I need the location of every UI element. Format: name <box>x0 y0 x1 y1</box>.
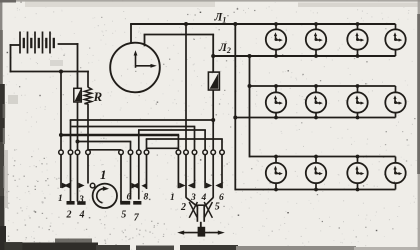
contact arrow 6 <box>131 183 137 189</box>
wire clock row1-1 top stub <box>275 24 277 29</box>
svg-text:6: 6 <box>127 193 132 203</box>
node row2-2 bottom <box>314 116 318 120</box>
contact arrow 3 <box>78 183 84 189</box>
pendulum contact arrow 6 <box>215 183 221 189</box>
wire clock row2-1 bottom stub <box>275 113 277 118</box>
node row1-1 bottom <box>274 54 278 58</box>
wire pendulum lead 6 <box>221 155 223 189</box>
node terminal 2 <box>68 150 73 155</box>
wire resistor top lead <box>87 71 89 88</box>
wire clock row1-4 bottom stub <box>395 50 397 56</box>
secondary clock row3-2 <box>306 163 326 183</box>
secondary clock row3-4 <box>385 163 405 183</box>
pendulum rod right <box>203 205 205 222</box>
svg-text:4: 4 <box>79 210 85 221</box>
node row1-2 top <box>314 22 318 26</box>
svg-text:2: 2 <box>66 210 72 221</box>
scan edge smudges <box>0 0 2 32</box>
node row2-1 bottom <box>274 116 278 120</box>
node row2-3 bottom <box>356 116 360 120</box>
pendulum spring left X <box>189 202 197 218</box>
wire pendulum lead 4 <box>204 155 206 189</box>
wire jumper terminal4 to terminal5 <box>88 149 121 151</box>
clock minute hand (up arrow) <box>135 54 137 68</box>
node row3-2 top <box>314 155 318 159</box>
node junction on battery bottom wire <box>59 70 63 74</box>
svg-text:R: R <box>93 89 103 104</box>
node terminal 13 <box>211 150 216 155</box>
svg-text:8: 8 <box>144 193 149 203</box>
wire left down <box>10 44 12 72</box>
wire battery branch down to terminal 1 <box>60 72 62 151</box>
wire pendulum lead 5 (to pivot) <box>212 155 214 198</box>
wire pendulum lead 1 <box>177 155 179 189</box>
svg-text:5: 5 <box>121 210 126 221</box>
contact arrow 2 <box>64 183 70 189</box>
wire contact lead 8 <box>146 155 148 189</box>
motor rotation arrow <box>97 189 105 203</box>
pendulum rod lower <box>200 222 202 228</box>
node row2-3 top <box>356 84 360 88</box>
wire L1 drop vertical to rows 2-3 <box>234 24 236 190</box>
wire H2b right corner down <box>204 130 206 150</box>
socket bar 5 (corner) <box>120 201 130 205</box>
wire row3 bottom bus <box>235 189 395 191</box>
wire clock row3-3 top stub <box>357 157 359 163</box>
svg-text:3: 3 <box>78 195 84 205</box>
socket bar 3 <box>77 201 85 205</box>
wire H5 right corner down <box>221 139 223 150</box>
node row3-1 top <box>274 155 278 159</box>
wire clock row2-1 top stub <box>275 86 277 92</box>
socket bar 2 <box>67 201 75 205</box>
wire clock row3-4 bottom stub <box>395 183 397 189</box>
primary clock face <box>110 43 160 93</box>
wire H5 routing <box>146 138 223 140</box>
node terminal 5 <box>119 150 124 155</box>
wire H4 corner down to terminal <box>130 142 132 151</box>
wire fuse-right down to terminal row <box>212 90 214 150</box>
wire clock row3-1 top stub <box>275 157 277 163</box>
node row3-3 bottom <box>356 188 360 192</box>
wire jumper terminal8 to terminal9 <box>147 147 179 149</box>
wire line L1 horizontal <box>130 23 395 25</box>
svg-text:2: 2 <box>180 202 186 213</box>
node terminal 10 <box>184 150 189 155</box>
wire H3 routing (thick) <box>61 134 179 137</box>
wire clock right terminal <box>144 35 146 47</box>
wire contact lead 1 <box>60 155 62 188</box>
node terminal 14 <box>220 150 225 155</box>
node terminal 9 <box>176 150 181 155</box>
pendulum contact arrow 1 <box>179 183 185 189</box>
battery GB (cell group) <box>19 32 21 54</box>
wire H2b routing <box>138 129 206 131</box>
svg-text:1: 1 <box>100 167 107 182</box>
wire row3 top bus <box>250 156 396 158</box>
contact arrow 1 <box>62 183 69 189</box>
node terminal 12 <box>203 150 208 155</box>
wire pendulum diagonal left <box>186 198 197 207</box>
wire clock row2-4 bottom stub <box>395 113 397 118</box>
wire battery right lead <box>58 43 79 45</box>
wire resistor bottom lead down to terminal <box>87 104 89 150</box>
wire contact lead 7 <box>138 155 140 200</box>
node row1-3 top <box>356 22 360 26</box>
wire clock right to fuse corner <box>144 34 215 36</box>
wire line L2 horizontal <box>213 55 395 57</box>
contact arrow 8 <box>141 183 147 189</box>
fuse F1 (left, half-filled) <box>74 88 82 102</box>
wire from L1 down to terminal row <box>185 24 187 150</box>
node terminal 1 <box>59 150 64 155</box>
wire battery right down to fuse <box>77 43 79 88</box>
node terminal 11 <box>192 150 197 155</box>
wire battery left lead <box>10 44 20 46</box>
secondary clock row3-3 <box>347 163 367 183</box>
wire row2 bottom bus <box>235 117 395 119</box>
wire H4 routing <box>78 141 132 143</box>
wire clock row2-4 top stub <box>395 86 397 92</box>
wire contact lead 5 <box>120 155 122 203</box>
pendulum rod top bar <box>197 204 205 206</box>
secondary clock row1-3 <box>347 29 367 49</box>
socket bar 7 <box>133 201 141 205</box>
secondary clock row3-1 <box>266 163 286 183</box>
wire contact lead 6 <box>130 155 132 200</box>
pendulum spring right X <box>204 202 212 218</box>
node H4 start <box>76 140 80 144</box>
wire clock row3-2 top stub <box>315 157 317 163</box>
node L1 tap for terminal wire <box>184 22 188 26</box>
node row2 bottom tap <box>233 116 237 120</box>
wire clock row1-3 bottom stub <box>357 50 359 56</box>
wire fuse-left down to terminal <box>77 102 79 150</box>
wire H2 right corner down to terminal <box>194 127 196 151</box>
node L1 drop <box>233 22 237 26</box>
wire down to L2 node and right fuse <box>212 35 214 73</box>
node terminal 3 <box>75 150 80 155</box>
wire bottom horizontal from battery <box>10 71 89 73</box>
pendulum contact arrow 3 <box>188 183 194 189</box>
node row1-2 bottom <box>314 54 318 58</box>
wire H5 left corner down <box>146 139 148 150</box>
node H1 junction on fuse wire <box>211 118 215 122</box>
wire motor lead <box>87 155 89 184</box>
node row1-1 top <box>274 22 278 26</box>
svg-text:5: 5 <box>215 202 220 213</box>
pendulum rod left <box>196 205 198 222</box>
pendulum bob <box>198 227 206 237</box>
wire H2 routing <box>71 126 195 128</box>
secondary clock row1-4 <box>385 29 405 49</box>
svg-text:1: 1 <box>58 194 63 204</box>
wire H1 routing <box>70 119 214 121</box>
node terminal 4 <box>86 150 91 155</box>
wire clock row3-3 bottom stub <box>357 183 359 189</box>
node row2-2 top <box>314 84 318 88</box>
wire pendulum lead 3 <box>194 155 196 189</box>
wire row2 top bus <box>250 85 396 87</box>
wire pendulum lead 2 (to pivot) <box>185 155 187 198</box>
wire clock row1-4 top stub <box>395 24 397 29</box>
wire clock row1-2 bottom stub <box>315 50 317 56</box>
node terminal 7 <box>137 150 142 155</box>
secondary clock row2-4 <box>385 92 405 112</box>
secondary clock row2-3 <box>347 92 367 112</box>
pendulum contact arrow 4 <box>206 183 212 189</box>
clock hour hand (right arrow) <box>136 65 153 67</box>
wire clock row1-3 top stub <box>357 24 359 29</box>
wire H3 corner down to terminal <box>177 135 179 150</box>
node row2 top tap <box>248 84 252 88</box>
secondary clock row2-1 <box>266 92 286 112</box>
node row1-3 bottom <box>356 54 360 58</box>
node row3-1 bottom <box>274 188 278 192</box>
oscillation double arrow <box>181 232 221 234</box>
wire clock row2-3 bottom stub <box>357 113 359 118</box>
svg-text:3: 3 <box>190 193 196 203</box>
wire clock row3-2 bottom stub <box>315 183 317 189</box>
wire H1 left corner down to terminal 2 <box>70 120 72 150</box>
node L2 drop <box>248 54 252 58</box>
wire pendulum diagonal right <box>205 198 214 207</box>
secondary clock row1-1 <box>266 29 286 49</box>
wire clock row1-1 bottom stub <box>275 50 277 56</box>
wire clock row1-2 top stub <box>315 24 317 29</box>
wire clock row2-3 top stub <box>357 86 359 92</box>
secondary clock row2-2 <box>306 92 326 112</box>
wire H2b left corner down <box>138 130 140 150</box>
node row2-1 top <box>274 84 278 88</box>
node terminal 8 <box>144 150 149 155</box>
wire contact lead 3 <box>77 155 79 202</box>
wire clock row3-1 bottom stub <box>275 183 277 189</box>
contact arrow 7 <box>132 183 138 189</box>
fuse F2 (right, half-filled) <box>208 72 219 90</box>
motor terminal <box>90 183 95 188</box>
svg-text:1: 1 <box>170 193 175 203</box>
wire contact lead 2 <box>70 155 72 202</box>
wire clock row3-4 top stub <box>395 157 397 163</box>
node row3-3 top <box>356 155 360 159</box>
secondary clock row1-2 <box>306 29 326 49</box>
wire clock row2-2 top stub <box>315 86 317 92</box>
node terminal 6 <box>128 150 133 155</box>
node H3 start on branch <box>59 133 63 137</box>
node row3-2 bottom <box>314 188 318 192</box>
motor device circle <box>93 184 117 208</box>
svg-text:4: 4 <box>201 193 207 203</box>
wire clock left terminal up <box>130 24 132 44</box>
resistor R (zigzag) <box>84 87 91 104</box>
wire L2 drop vertical to rows 2-3 <box>249 56 251 157</box>
wire clock row2-2 bottom stub <box>315 113 317 118</box>
node L2 tap <box>211 54 215 58</box>
